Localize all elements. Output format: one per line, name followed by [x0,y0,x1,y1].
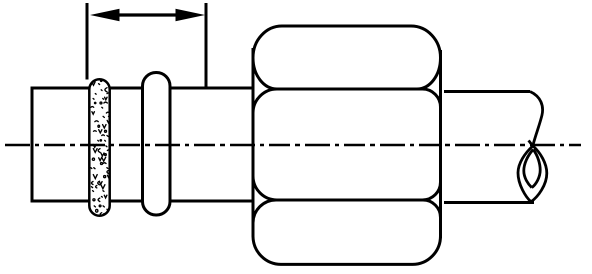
dimension arrow shaft [105,13,192,16]
O-ring bulge [143,73,171,216]
hex nut bottom facet [253,200,441,264]
centerline (dash-dot axis) [5,144,581,147]
hex nut right silhouette edge [439,50,442,238]
dimension extension line right [205,3,208,87]
right pipe (tube run) [444,92,534,203]
knurl stipple texture [90,79,111,215]
dimension arrowhead left [90,9,120,21]
knurled sleeve band [89,79,111,215]
left pipe body (tube end) [31,87,253,203]
hex nut top facet [253,26,441,89]
conventional break symbol (cursive loop) [518,92,547,202]
dimension arrowhead right [176,9,206,21]
hex nut left silhouette edge [252,48,255,236]
hex nut middle facet [253,89,441,200]
dimension extension line left [86,3,89,80]
